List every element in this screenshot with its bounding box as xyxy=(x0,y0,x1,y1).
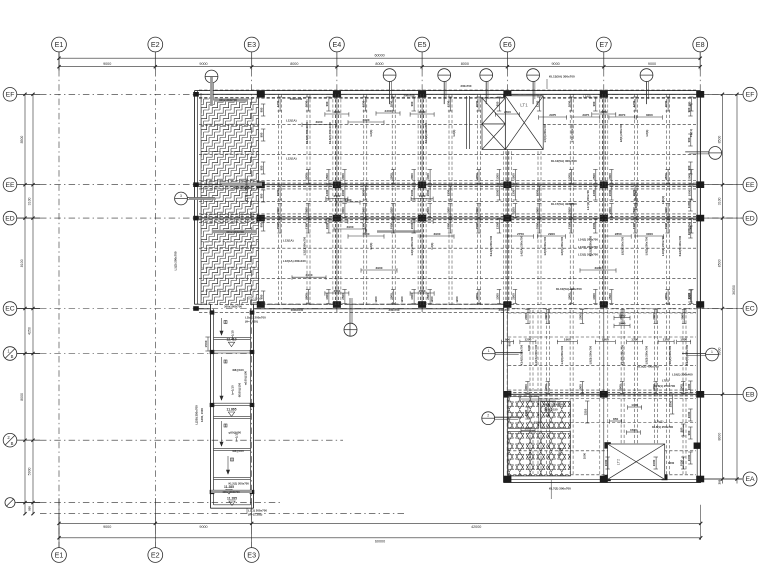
svg-text:1300: 1300 xyxy=(592,293,596,300)
svg-text:1900: 1900 xyxy=(592,222,596,229)
grid axis E1 (vertical) xyxy=(52,37,67,562)
svg-text:3x16: 3x16 xyxy=(528,451,532,458)
svg-text:9000: 9000 xyxy=(103,525,111,529)
svg-text:LW(1): LW(1) xyxy=(689,129,693,137)
svg-text:1300: 1300 xyxy=(663,337,670,341)
svg-text:L12(1A): L12(1A) xyxy=(286,118,297,122)
svg-text:L1(3) 200x700: L1(3) 200x700 xyxy=(174,251,178,270)
svg-text:EC: EC xyxy=(5,306,15,313)
svg-text:ED: ED xyxy=(5,215,15,222)
svg-text:1900: 1900 xyxy=(536,189,540,196)
svg-text:200x700: 200x700 xyxy=(461,84,472,88)
svg-text:2000: 2000 xyxy=(608,173,612,180)
svg-text:KL5(3) 200x700: KL5(3) 200x700 xyxy=(588,235,592,256)
grid axis EE (horizontal) xyxy=(3,178,757,192)
svg-text:3100: 3100 xyxy=(28,197,32,205)
svg-text:E8: E8 xyxy=(696,40,705,49)
grid axis ED (horizontal) xyxy=(3,211,757,225)
svg-text:400x1000/700: 400x1000/700 xyxy=(233,185,251,189)
svg-text:2000: 2000 xyxy=(652,313,656,320)
svg-text:1000: 1000 xyxy=(524,384,528,391)
svg-text:3900: 3900 xyxy=(306,273,313,277)
svg-text:L12(1A): L12(1A) xyxy=(286,156,297,160)
svg-text:200: 200 xyxy=(717,479,721,484)
svg-text:E1: E1 xyxy=(55,40,64,49)
svg-text:L4(3) 200x700: L4(3) 200x700 xyxy=(560,345,564,364)
svg-text:300x1000: 300x1000 xyxy=(290,97,303,101)
right extension stubs xyxy=(702,93,743,95)
svg-text:LT1: LT1 xyxy=(520,103,528,108)
svg-text:L19(1) 200x400: L19(1) 200x400 xyxy=(672,373,693,377)
svg-text:1000: 1000 xyxy=(583,452,587,459)
svg-text:1100: 1100 xyxy=(687,201,691,208)
svg-text:L2(1): L2(1) xyxy=(452,130,456,137)
svg-text:EA: EA xyxy=(745,476,755,483)
stair hatch strip (ramp) xyxy=(201,99,259,305)
svg-text:L8(1): L8(1) xyxy=(645,130,649,137)
svg-text:2975: 2975 xyxy=(582,113,589,117)
grid axis EC (horizontal) xyxy=(3,302,757,316)
svg-text:L2(1) 300x700: L2(1) 300x700 xyxy=(303,236,307,255)
svg-text:1300: 1300 xyxy=(426,173,430,180)
svg-text:11.285: 11.285 xyxy=(227,497,237,501)
svg-text:1300: 1300 xyxy=(495,293,499,300)
grey revision bars xyxy=(189,77,420,492)
svg-text:2400: 2400 xyxy=(333,194,340,198)
interior dimension ticks right block lower xyxy=(607,457,609,469)
svg-text:900: 900 xyxy=(508,341,512,346)
svg-text:1600: 1600 xyxy=(525,426,532,430)
svg-text:1300: 1300 xyxy=(361,222,365,229)
svg-text:2500: 2500 xyxy=(592,173,596,180)
svg-text:KL3(2) 300x1000: KL3(2) 300x1000 xyxy=(305,122,309,144)
svg-text:1000: 1000 xyxy=(687,292,691,299)
LT2 pocket dims xyxy=(614,317,630,319)
svg-text:L5(3) 200x700: L5(3) 200x700 xyxy=(543,123,547,142)
svg-text:2500: 2500 xyxy=(664,173,668,180)
svg-text:2000: 2000 xyxy=(475,222,479,229)
svg-text:L7b(1): L7b(1) xyxy=(655,420,663,424)
section mark right side upper xyxy=(709,147,722,160)
svg-text:2000: 2000 xyxy=(495,189,499,196)
extra columns around LT2 xyxy=(604,442,700,481)
svg-text:xx xx(12.55m): xx xx(12.55m) xyxy=(243,297,261,301)
bottom dimension chain (bays) xyxy=(59,522,701,524)
svg-text:1000: 1000 xyxy=(544,384,548,391)
elevator core LT2 (crossed box) xyxy=(608,444,665,479)
svg-text:9000: 9000 xyxy=(199,62,207,66)
svg-text:1000: 1000 xyxy=(527,344,531,351)
right block outline xyxy=(503,304,505,482)
svg-text:2000: 2000 xyxy=(475,100,479,107)
svg-text:ED: ED xyxy=(745,215,755,222)
svg-text:2500: 2500 xyxy=(419,110,426,114)
svg-text:L7(1) 200x700: L7(1) 200x700 xyxy=(570,123,574,142)
grid axis E7 (vertical) xyxy=(596,37,611,481)
svg-text:1200, 1500: 1200, 1500 xyxy=(200,408,204,422)
svg-text:8500: 8500 xyxy=(20,136,24,144)
svg-text:π100@100: π100@100 xyxy=(244,370,248,385)
svg-text:3900: 3900 xyxy=(363,118,370,122)
svg-text:L12(1A) 300x100: L12(1A) 300x100 xyxy=(283,259,306,263)
svg-text:KL1(3) 300x1000: KL1(3) 300x1000 xyxy=(245,178,249,201)
svg-text:LT2: LT2 xyxy=(616,458,621,465)
svg-text:42000: 42000 xyxy=(471,525,481,529)
svg-text:1900: 1900 xyxy=(664,222,668,229)
left extension stubs xyxy=(17,93,40,95)
svg-text:1300: 1300 xyxy=(592,189,596,196)
svg-text:2000: 2000 xyxy=(681,313,685,320)
bay dimension pairs ED-EC zone xyxy=(508,235,534,237)
svg-text:1000: 1000 xyxy=(578,384,582,391)
svg-text:2000: 2000 xyxy=(410,222,414,229)
bottom axis stems xyxy=(58,498,60,548)
svg-text:2000: 2000 xyxy=(608,207,612,214)
svg-text:EB: EB xyxy=(745,392,755,399)
svg-text:60000: 60000 xyxy=(375,539,385,543)
svg-text:1300: 1300 xyxy=(447,189,451,196)
svg-text:E7: E7 xyxy=(599,40,608,49)
svg-text:1000: 1000 xyxy=(524,409,528,416)
svg-text:1900: 1900 xyxy=(688,189,692,196)
svg-text:1900: 1900 xyxy=(608,189,612,196)
svg-text:2500: 2500 xyxy=(333,110,340,114)
svg-text:2500: 2500 xyxy=(341,293,345,300)
top block outline outer xyxy=(194,91,196,305)
grid axis 1/EJ (horizontal minor) xyxy=(5,498,280,508)
svg-text:1300: 1300 xyxy=(568,222,572,229)
svg-text:3900: 3900 xyxy=(347,225,354,229)
svg-text:1300: 1300 xyxy=(632,222,636,229)
svg-text:1500: 1500 xyxy=(619,321,626,325)
svg-text:8000: 8000 xyxy=(717,433,721,441)
svg-text:2500: 2500 xyxy=(333,289,340,293)
auxiliary axis line below corridor xyxy=(40,513,405,515)
svg-text:1800: 1800 xyxy=(669,400,673,407)
svg-text:L9(2) 200x700: L9(2) 200x700 xyxy=(645,236,649,255)
svg-text:1300: 1300 xyxy=(305,173,309,180)
svg-text:φ50@100: φ50@100 xyxy=(229,431,242,435)
grid axis EF (horizontal) xyxy=(3,87,757,101)
svg-text:L2(1): L2(1) xyxy=(369,130,373,137)
svg-text:1900: 1900 xyxy=(341,189,345,196)
svg-text:E2: E2 xyxy=(151,40,160,49)
svg-text:8500: 8500 xyxy=(717,259,721,267)
grid axis 1/EK (horizontal minor) xyxy=(3,433,343,447)
svg-text:1900: 1900 xyxy=(410,189,414,196)
svg-text:2500: 2500 xyxy=(305,207,309,214)
svg-text:2500: 2500 xyxy=(390,173,394,180)
svg-text:2: 2 xyxy=(487,414,489,418)
svg-text:1200: 1200 xyxy=(447,207,451,214)
bay dimension pairs row EF zone xyxy=(539,116,567,118)
svg-text:L4(2A) 200x700: L4(2A) 200x700 xyxy=(519,235,523,256)
svg-text:2000: 2000 xyxy=(475,293,479,300)
svg-text:3900: 3900 xyxy=(363,232,370,236)
svg-text:800: 800 xyxy=(260,132,264,137)
svg-text:3x16@150: 3x16@150 xyxy=(544,408,558,412)
svg-text:2870: 2870 xyxy=(618,113,625,117)
svg-text:2750: 2750 xyxy=(517,232,524,236)
svg-text:3000: 3000 xyxy=(646,113,653,117)
interior dimension ticks right block upper xyxy=(527,310,529,324)
svg-text:L8(1) 200x700: L8(1) 200x700 xyxy=(619,123,623,142)
svg-text:400x1000/200: 400x1000/200 xyxy=(226,230,244,234)
svg-text:1300: 1300 xyxy=(495,222,499,229)
svg-text:900: 900 xyxy=(260,222,264,227)
columns (filled squares at grid intersections) xyxy=(193,91,704,482)
svg-text:1000: 1000 xyxy=(604,459,608,466)
section marks above top edge xyxy=(383,69,396,82)
svg-text:900: 900 xyxy=(505,337,510,341)
corridor columns xyxy=(210,310,255,494)
svg-text:KL8(1) 250x700: KL8(1) 250x700 xyxy=(652,425,673,429)
svg-text:2500: 2500 xyxy=(325,173,329,180)
bottom dimension chain (total 60000) xyxy=(59,537,701,539)
svg-text:3900: 3900 xyxy=(434,232,441,236)
svg-text:5900: 5900 xyxy=(28,467,32,475)
svg-text:1000: 1000 xyxy=(687,454,691,461)
svg-text:9000: 9000 xyxy=(648,62,656,66)
svg-text:L8(2) 200x700: L8(2) 200x700 xyxy=(668,345,672,364)
right block misc dims xyxy=(587,401,589,423)
top dimension chain (total 60000) xyxy=(59,57,700,59)
svg-text:2500: 2500 xyxy=(419,289,426,293)
svg-text:3000: 3000 xyxy=(646,232,653,236)
svg-text:900: 900 xyxy=(687,137,691,142)
svg-text:L18(2) 200x700: L18(2) 200x700 xyxy=(661,236,665,256)
svg-text:B: B xyxy=(11,441,14,446)
svg-text:2500: 2500 xyxy=(511,173,515,180)
svg-text:300x700: 300x700 xyxy=(499,308,510,312)
svg-text:1500: 1500 xyxy=(630,428,637,432)
svg-text:1200: 1200 xyxy=(455,296,459,303)
svg-text:2000: 2000 xyxy=(426,189,430,196)
svg-text:1300: 1300 xyxy=(619,313,626,317)
secondary beams: vertical pairs in right block xyxy=(530,310,686,474)
svg-text:850: 850 xyxy=(28,506,32,511)
svg-text:E2: E2 xyxy=(151,550,160,559)
svg-text:L7(1): L7(1) xyxy=(662,379,669,383)
svg-text:1200: 1200 xyxy=(536,100,540,107)
right block EC-EB dim row xyxy=(502,341,514,343)
svg-text:2000: 2000 xyxy=(664,100,668,107)
svg-text:2000: 2000 xyxy=(341,207,345,214)
section mark 2 mid xyxy=(482,412,495,425)
svg-text:1000: 1000 xyxy=(680,384,684,391)
svg-text:B: B xyxy=(11,354,14,359)
svg-text:2400: 2400 xyxy=(345,198,352,202)
svg-text:Φ8@100: Φ8@100 xyxy=(232,449,244,453)
svg-text:900: 900 xyxy=(410,101,414,106)
svg-text:1: 1 xyxy=(488,349,490,353)
svg-text:900: 900 xyxy=(680,427,684,432)
svg-text:1900: 1900 xyxy=(564,337,571,341)
svg-text:E4: E4 xyxy=(333,40,342,49)
svg-text:L8(3) 200x700: L8(3) 200x700 xyxy=(543,236,547,255)
svg-text:1200: 1200 xyxy=(390,207,394,214)
svg-text:KL5(3) 200x700: KL5(3) 200x700 xyxy=(621,344,625,365)
svg-text:8000: 8000 xyxy=(290,62,298,66)
svg-text:2900: 2900 xyxy=(548,232,555,236)
svg-text:800: 800 xyxy=(260,165,264,170)
svg-text:L8(3) 200x700: L8(3) 200x700 xyxy=(588,345,592,364)
svg-text:1200: 1200 xyxy=(430,296,434,303)
svg-text:2000: 2000 xyxy=(536,207,540,214)
svg-text:1900: 1900 xyxy=(602,337,609,341)
interior dimension ticks right block EB row xyxy=(527,382,529,394)
svg-text:2000: 2000 xyxy=(536,222,540,229)
svg-text:400x1000/700: 400x1000/700 xyxy=(222,490,240,494)
svg-text:9000: 9000 xyxy=(103,62,111,66)
section mark 3 left side xyxy=(175,192,188,205)
svg-text:Φ8@100: Φ8@100 xyxy=(232,368,244,372)
svg-text:1200: 1200 xyxy=(276,100,280,107)
svg-text:E5: E5 xyxy=(418,40,427,49)
svg-text:900: 900 xyxy=(260,193,264,198)
svg-text:2000: 2000 xyxy=(341,173,345,180)
svg-text:E3: E3 xyxy=(247,550,256,559)
svg-text:2000: 2000 xyxy=(305,293,309,300)
svg-text:2500: 2500 xyxy=(608,293,612,300)
elevator core LT1 (crossed boxes) xyxy=(467,96,544,150)
svg-text:11.865: 11.865 xyxy=(227,408,237,412)
section mark above plan near E3 xyxy=(205,70,218,83)
stair hatch strip dividers xyxy=(201,124,259,126)
svg-text:L2(1) 200x700: L2(1) 200x700 xyxy=(410,236,414,255)
grid axis E6 (vertical) xyxy=(500,37,515,481)
svg-text:1300: 1300 xyxy=(631,403,638,407)
svg-text:E6: E6 xyxy=(503,40,512,49)
grid axis E8 (vertical) xyxy=(693,37,708,481)
secondary beams: vertical pairs in top block xyxy=(279,94,670,305)
svg-text:L16(1) 200x700: L16(1) 200x700 xyxy=(634,190,638,210)
svg-text:1200: 1200 xyxy=(511,207,515,214)
grid axis EA (horizontal) xyxy=(702,472,757,486)
section mark below EC near E4 xyxy=(344,323,357,336)
svg-text:EF: EF xyxy=(746,92,755,99)
svg-text:1300: 1300 xyxy=(511,189,515,196)
svg-text:1: 1 xyxy=(711,350,713,354)
grid axis EB (horizontal) xyxy=(702,387,757,401)
corridor stair arrows xyxy=(220,318,230,474)
svg-text:1200: 1200 xyxy=(447,100,451,107)
svg-text:2000: 2000 xyxy=(361,189,365,196)
svg-text:2000: 2000 xyxy=(578,313,582,320)
svg-text:L2(1): L2(1) xyxy=(369,243,373,250)
svg-text:KL3(2) 300x1000: KL3(2) 300x1000 xyxy=(328,122,332,144)
svg-text:L14(1): L14(1) xyxy=(583,95,591,99)
svg-text:Φ100@100: Φ100@100 xyxy=(238,382,242,397)
svg-text:KL17(5A) 300x700: KL17(5A) 300x700 xyxy=(551,202,577,206)
svg-text:KL7(2) 300x700: KL7(2) 300x700 xyxy=(549,487,571,491)
svg-text:L4(2A) 200x700: L4(2A) 200x700 xyxy=(534,344,538,365)
svg-text:2300: 2300 xyxy=(385,109,392,113)
svg-text:2000: 2000 xyxy=(544,313,548,320)
svg-text:900: 900 xyxy=(325,101,329,106)
star hatch lower region xyxy=(508,432,571,477)
svg-text:4250: 4250 xyxy=(28,327,32,335)
svg-text:900: 900 xyxy=(687,165,691,170)
left dimension chain inner xyxy=(32,94,34,513)
secondary beams: horizontal thirds in right block xyxy=(508,313,696,475)
top block bottom edge (EC) xyxy=(195,303,211,305)
svg-text:1000: 1000 xyxy=(687,383,691,390)
grid axis E3 (vertical) xyxy=(244,37,259,562)
svg-text:850: 850 xyxy=(613,417,618,421)
svg-text:KL8(3) 400x700: KL8(3) 400x700 xyxy=(685,344,689,365)
svg-text:9000: 9000 xyxy=(199,525,207,529)
svg-text:EE: EE xyxy=(5,182,15,189)
svg-text:1000: 1000 xyxy=(619,384,623,391)
svg-text:L13(1A): L13(1A) xyxy=(283,238,294,242)
svg-text:2000: 2000 xyxy=(568,293,572,300)
svg-text:1200: 1200 xyxy=(664,207,668,214)
svg-text:2500: 2500 xyxy=(333,217,340,221)
svg-text:1200: 1200 xyxy=(632,100,636,107)
svg-text:2500: 2500 xyxy=(361,207,365,214)
svg-text:(H=12.55): (H=12.55) xyxy=(245,320,258,324)
svg-text:1900: 1900 xyxy=(419,194,426,198)
svg-text:(H=11.285): (H=11.285) xyxy=(248,513,262,517)
grid axis E5 (vertical) xyxy=(415,37,430,312)
svg-text:KL6(5) 400x700: KL6(5) 400x700 xyxy=(678,235,682,256)
svg-text:1000: 1000 xyxy=(680,459,684,466)
star region inner annotations xyxy=(152,0,560,401)
svg-text:KL4(5) 200x700: KL4(5) 200x700 xyxy=(519,344,523,365)
svg-text:300x1000: 300x1000 xyxy=(291,308,304,312)
svg-text:8000: 8000 xyxy=(375,62,383,66)
svg-text:2000: 2000 xyxy=(475,207,479,214)
svg-text:L8(3b): L8(3b) xyxy=(558,448,562,456)
svg-text:E3: E3 xyxy=(247,40,256,49)
svg-text:2000: 2000 xyxy=(568,100,572,107)
section mark 1 mid xyxy=(482,347,495,360)
svg-text:L17(1) 200x700: L17(1) 200x700 xyxy=(586,190,590,210)
svg-text:2500: 2500 xyxy=(511,293,515,300)
svg-text:L8(3) 200x700: L8(3) 200x700 xyxy=(645,345,649,364)
svg-text:2000: 2000 xyxy=(276,207,280,214)
grid lines inside top block (solid) xyxy=(198,94,698,394)
svg-text:2850: 2850 xyxy=(615,232,622,236)
svg-text:1300: 1300 xyxy=(325,293,329,300)
svg-text:2000: 2000 xyxy=(664,293,668,300)
svg-text:KL3(2) 300x700: KL3(2) 300x700 xyxy=(424,122,428,143)
svg-text:1900: 1900 xyxy=(325,222,329,229)
svg-text:L(2B) 250x700: L(2B) 250x700 xyxy=(195,405,199,425)
svg-text:2000: 2000 xyxy=(276,222,280,229)
svg-text:2000: 2000 xyxy=(305,100,309,107)
svg-text:1200: 1200 xyxy=(524,337,531,341)
svg-text:2000: 2000 xyxy=(390,100,394,107)
svg-text:2000: 2000 xyxy=(524,313,528,320)
svg-text:1300: 1300 xyxy=(568,173,572,180)
svg-text:EE: EE xyxy=(745,182,755,189)
svg-text:8100: 8100 xyxy=(20,259,24,267)
svg-text:2500: 2500 xyxy=(426,207,430,214)
svg-text:1500: 1500 xyxy=(204,340,208,347)
grid axis E4 (vertical) xyxy=(330,37,345,312)
svg-text:1000: 1000 xyxy=(652,459,656,466)
svg-text:60000: 60000 xyxy=(374,54,384,58)
svg-text:EF: EF xyxy=(6,92,15,99)
top dimension chain (bays) xyxy=(59,66,700,68)
svg-text:1000: 1000 xyxy=(687,411,691,418)
svg-text:L2(1): L2(1) xyxy=(430,243,434,250)
svg-text:300x700: 300x700 xyxy=(389,308,400,312)
svg-text:1900: 1900 xyxy=(390,222,394,229)
svg-text:2350: 2350 xyxy=(419,217,426,221)
